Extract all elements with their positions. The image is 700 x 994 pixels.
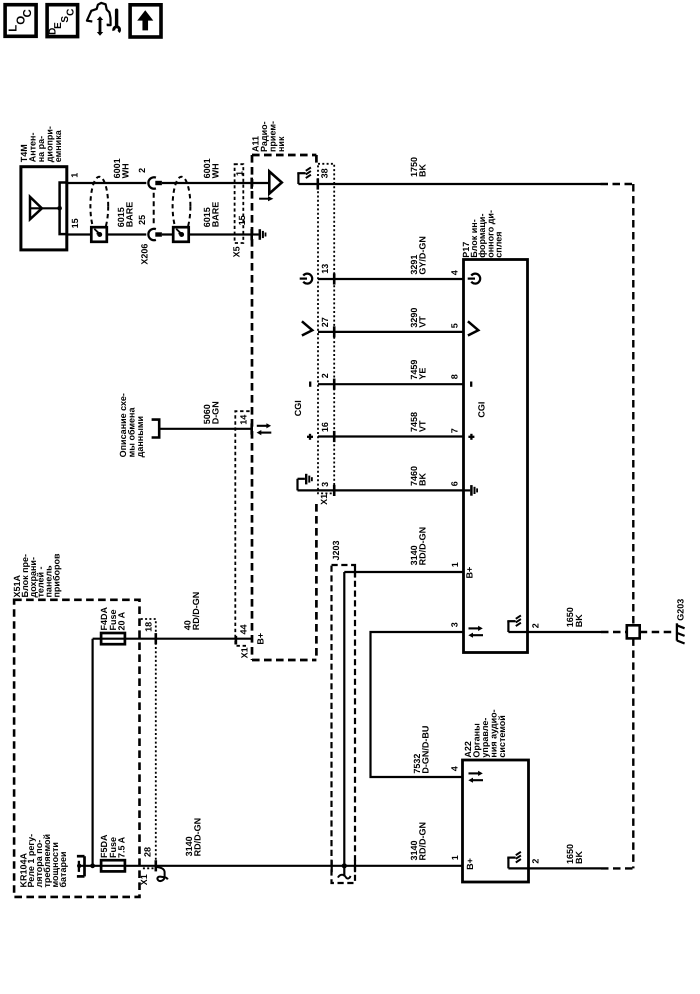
svg-text:X206: X206 [140, 244, 150, 265]
signal direction arrow [259, 198, 269, 200]
svg-text:C: C [65, 9, 76, 16]
pin tick 44 [235, 636, 238, 645]
tick J203 right edge at pin1 wire [354, 567, 356, 578]
shield symbol 1 [90, 177, 108, 236]
ground symbol in P17 pin 6 [464, 489, 471, 491]
wire 3140 RD/D-GN main [79, 865, 463, 867]
wire 3140 RD/D-GN to P17 pin1 [344, 571, 463, 573]
pin tick 16 [333, 431, 336, 442]
svg-text:2: 2 [531, 623, 541, 628]
icon LOC box [5, 5, 36, 37]
svg-text:X1: X1 [139, 874, 149, 885]
serial data arrows A22 pin4 [469, 772, 479, 774]
ground junction G203 square [627, 625, 640, 638]
pin tick 38 [316, 178, 319, 189]
CGI minus at pin 2 [309, 382, 311, 387]
internal ground P17 pin2 [507, 621, 509, 632]
pin tick 28 [155, 860, 158, 871]
svg-text:44: 44 [238, 624, 248, 634]
accessory symbol at pin 27 [302, 321, 312, 335]
svg-text:1: 1 [450, 562, 460, 567]
CGI plus in P17 [470, 434, 472, 440]
svg-text:5: 5 [450, 323, 460, 328]
pin tick 2 [333, 379, 336, 390]
pin tick 14 [250, 423, 253, 434]
svg-text:B+: B+ [465, 567, 475, 579]
antenna symbol [30, 197, 42, 220]
fuse F4DA [93, 638, 253, 640]
svg-text:14: 14 [239, 415, 249, 425]
inline connector X206 on wire 6001 [148, 177, 156, 188]
svg-text:1: 1 [69, 173, 79, 178]
svg-text:18: 18 [143, 622, 153, 632]
dashed wire G203 down [632, 638, 634, 868]
serial data arrows P17 pin3 [469, 627, 479, 629]
wire 3291 GY/D-GN [318, 278, 464, 280]
inline connector X206 on wire 6015 [148, 229, 156, 240]
svg-text:J203: J203 [331, 540, 341, 560]
svg-text:28: 28 [143, 847, 153, 857]
svg-text:X51AБлок пре-дохрани-телей -па: X51AБлок пре-дохрани-телей -панельприбор… [12, 553, 62, 598]
wire inside J203 vertical [343, 572, 345, 876]
internal ground at pin 38 [297, 173, 299, 184]
svg-text:15: 15 [237, 215, 247, 225]
wire 1650 BK (P17) [528, 631, 602, 633]
power symbol at pin 13 [303, 274, 312, 284]
icon up-arrow box [130, 5, 161, 37]
dashed wire G203 right [640, 631, 676, 633]
svg-text:2: 2 [531, 859, 541, 864]
pin tick 27 [333, 326, 336, 337]
svg-text:6: 6 [450, 481, 460, 486]
wire 6015 BARE segment 2 [162, 233, 252, 235]
relay KR104A contact [77, 855, 85, 858]
component T4M antenna box [21, 167, 67, 250]
wire 6001 WH segment 2 [162, 182, 252, 184]
icon DESC box [47, 5, 78, 37]
accessory symbol in P17 [468, 321, 478, 335]
pin tick wire15 at A11 [250, 229, 253, 240]
tick J203 right edge [354, 860, 356, 872]
icon vehicle-service (car outline, double arrow, wrench) [87, 3, 111, 25]
tick J203 left edge [331, 860, 333, 872]
svg-text:15: 15 [70, 218, 80, 228]
component P17 info display box [464, 260, 528, 653]
svg-text:3: 3 [450, 622, 460, 627]
svg-text:4: 4 [450, 766, 460, 771]
svg-text:C: C [22, 9, 34, 17]
svg-text:B+: B+ [465, 858, 475, 870]
splice pack J203 dashed box [332, 565, 356, 883]
svg-text:8: 8 [450, 374, 460, 379]
ground symbol at pin 3 [296, 479, 298, 491]
splice squiggle [338, 875, 351, 879]
svg-text:B+: B+ [256, 633, 266, 645]
svg-text:2: 2 [320, 373, 330, 378]
shield symbol 2 [173, 177, 191, 236]
component A22 audio controls box [463, 760, 529, 882]
chassis ground G203 [676, 623, 678, 640]
wire 6001 WH segment 1 [67, 182, 147, 184]
junction dot J203 [342, 863, 347, 868]
svg-text:7: 7 [450, 428, 460, 433]
wire 7459 YE [318, 383, 464, 385]
svg-text:CGI: CGI [477, 402, 487, 418]
connector X1 dotted strip (A11 right) [318, 164, 334, 494]
wire 5060 D-GN [159, 428, 252, 430]
wire 1750 BK dashed to G203 [601, 183, 634, 185]
svg-text:13: 13 [320, 264, 330, 274]
antenna amplifier triangle in A11 [252, 182, 269, 184]
wire 7458 VT [318, 435, 464, 437]
svg-text:CGI: CGI [293, 400, 303, 416]
wire 7460 BK [298, 489, 464, 491]
svg-text:38: 38 [319, 168, 329, 178]
pin tick 3 [333, 485, 336, 496]
CGI plus at pin 16 [309, 434, 311, 440]
svg-text:1: 1 [234, 171, 244, 176]
svg-text:4: 4 [450, 270, 460, 275]
CGI minus in P17 [470, 382, 472, 387]
wire F4DA to relay node vertical [91, 639, 93, 866]
serial data arrows pin 14 [257, 425, 267, 427]
component X51A fuse block (dashed box) [14, 600, 139, 897]
svg-text:X5: X5 [231, 246, 241, 257]
svg-text:2: 2 [137, 168, 147, 173]
wire 3290 VT [318, 331, 464, 333]
svg-text:3: 3 [320, 482, 330, 487]
svg-text:16: 16 [320, 422, 330, 432]
svg-text:27: 27 [320, 317, 330, 327]
connector X5 dotted box (pins 1,15) [235, 164, 244, 243]
junction dot relay/F4DA [90, 863, 95, 868]
connector X1 dotted strip (fuse block) [141, 619, 156, 868]
wire 1750 BK solid [298, 183, 600, 185]
wire 6015 BARE segment 1 [67, 233, 147, 235]
pin tick 13 [333, 273, 336, 284]
wire 7532 D-GN/D-BU [371, 632, 464, 777]
wire 1650 BK (A22) [529, 867, 602, 869]
component A11 radio (dashed box) [251, 155, 254, 660]
svg-text:G203: G203 [676, 599, 686, 621]
pin tick wire1 at A11 [250, 178, 253, 189]
take-out curl [156, 867, 168, 881]
svg-text:F5DAFuse7.5 A: F5DAFuse7.5 A [99, 834, 126, 858]
svg-text:5060D-GN: 5060D-GN [202, 401, 221, 424]
node: data link description bracket [152, 420, 160, 438]
power symbol in P17 [471, 274, 480, 284]
internal ground A22 pin2 [507, 858, 509, 869]
svg-text:25: 25 [137, 215, 147, 225]
svg-text:1: 1 [450, 855, 460, 860]
fuse F5DA [101, 860, 125, 871]
ground symbol on 6015 inside A11 [252, 233, 259, 235]
svg-text:X1: X1 [240, 647, 250, 658]
X206 link dashed line [153, 193, 155, 226]
connector dashed outline pins 14/44 [235, 411, 249, 646]
pin tick 18 [155, 633, 158, 644]
svg-text:X1: X1 [319, 494, 329, 505]
